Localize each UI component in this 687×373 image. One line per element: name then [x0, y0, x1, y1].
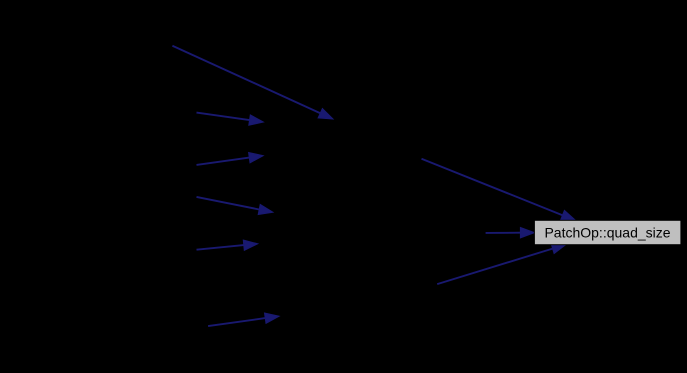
svg-text:PatchOp::quad_size: PatchOp::quad_size [544, 224, 670, 240]
